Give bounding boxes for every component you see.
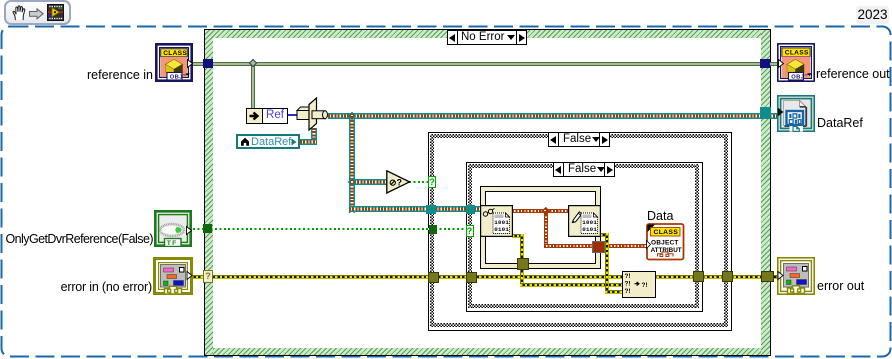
wire: DVR top NewDVR -> DataRef indicator (328, 113, 777, 119)
node: Merge Errors (622, 271, 656, 298)
terminal: error in (cluster control) (153, 257, 193, 295)
terminal: reference in (class control) (155, 43, 193, 82)
svg-text:?!: ?! (625, 288, 631, 295)
wire: class wire branch down to Ref node (251, 64, 255, 108)
terminal: DataRef out (DVR indicator) (777, 95, 815, 132)
svg-text:⊘?: ⊘? (389, 177, 402, 187)
terminal: reference out (class indicator) (777, 43, 815, 82)
node: Not A Number/Path/Refnum? triangle (386, 170, 411, 194)
tunnel: boolean (dark green) on green border (203, 224, 212, 233)
wire: object wire drop from diamond (544, 211, 548, 246)
toolbar arrow icon (29, 8, 44, 20)
wire: error from write node down (600, 233, 609, 237)
svg-text:CLASS: CLASS (785, 50, 809, 57)
toolbar hand icon (11, 5, 28, 22)
svg-text:?!: ?! (625, 273, 631, 280)
selector terminal: inner False case (?) (466, 225, 474, 237)
label: DataRef (817, 116, 863, 130)
in-place-element structure frame (480, 186, 601, 269)
junction: DVR diamond top (348, 111, 356, 119)
terminal: OnlyGetDvrReference(False) (bool control) (154, 210, 192, 247)
junction: DVR diamond mid (348, 178, 356, 186)
tunnel: error olive on inner False case right (693, 271, 704, 283)
selector terminal: green case (?) (203, 270, 213, 283)
wire: DVR vertical drop (349, 117, 355, 213)
toolbar tab (4, 0, 71, 25)
label: DataRef wire label (house) (236, 134, 300, 149)
svg-text:0101: 0101 (494, 226, 509, 233)
tunnel: error olive on outer False case right (722, 271, 733, 283)
tunnel: DVR on outer False case (426, 205, 436, 214)
tunnel: error olive on green case right (761, 271, 774, 283)
node: New Data Value Reference (funnel) (296, 97, 330, 132)
svg-text:OBJ: OBJ (169, 74, 182, 80)
selector terminal: outer False case (?) (428, 176, 436, 188)
svg-text:OBJECT: OBJECT (651, 239, 679, 246)
svg-text:OBJ: OBJ (791, 74, 804, 80)
node: Ref string constant (246, 108, 288, 124)
selector label: False (outer) (548, 132, 610, 147)
svg-text:TF: TF (167, 240, 178, 247)
case structure: False (outer, checkered) (428, 132, 732, 331)
svg-text:CLASS: CLASS (163, 50, 187, 57)
tunnel: error olive on inner False case left (466, 272, 477, 284)
tunnel: reference out (navy) (760, 59, 770, 69)
label: error in (no error) (61, 280, 152, 294)
label: error out (817, 279, 864, 293)
tunnel: DVR out (teal) (760, 107, 771, 119)
case structure: No Error (green hatched) (204, 29, 772, 356)
tunnel: error olive on outer False case left (428, 272, 439, 284)
svg-text:1001: 1001 (582, 219, 597, 226)
svg-text:0101: 0101 (582, 226, 597, 233)
wire: object wire to right tunnel and Data constant (544, 244, 648, 248)
2023 version label (856, 6, 889, 24)
constant: Data class constant (647, 209, 673, 223)
tunnel: DVR on inner False case (466, 205, 475, 214)
case structure: False (inner, checkered) (466, 162, 703, 312)
wire: DVR stub funnel bottom to DataRef label (311, 128, 317, 144)
wire: object wire inside IPE read -> write (512, 209, 571, 213)
wire: DVR horizontal into IPE read node (349, 206, 482, 212)
svg-text:?!: ?! (642, 282, 648, 289)
label: reference out (816, 67, 890, 81)
junction: class wire diamond (249, 59, 257, 67)
tunnel: object maroon on IPE right (592, 241, 605, 253)
tunnel: error olive on IPE bottom (517, 258, 529, 270)
selector label: No Error (447, 30, 527, 45)
selector label: False (inner) (553, 162, 615, 177)
svg-text:CLASS: CLASS (654, 229, 679, 236)
tunnel: reference in (navy) (203, 59, 213, 69)
node: DVR read element (left border of IPE) (480, 205, 513, 237)
node: DVR write element (right border of IPE) (568, 205, 601, 237)
tunnel: boolean dark green on outer False case (429, 225, 437, 234)
label: OnlyGetDvrReference(False) (5, 232, 153, 246)
terminal: error out (cluster indicator) (777, 257, 815, 295)
wire: class wire reference in -> reference out (top horizontal) (192, 62, 777, 66)
wire: error from read node down (512, 234, 523, 238)
label: reference in (87, 68, 153, 82)
wire: boolean dotted NotARefnum -> outer case selector (409, 181, 430, 183)
toolbar VI icon (47, 4, 64, 21)
wire: DVR branch to NotARefnum triangle (354, 179, 387, 185)
wire: blue refnum name wire Ref -> NewDVR (286, 114, 298, 116)
svg-text:1001: 1001 (494, 219, 509, 226)
svg-text:?!: ?! (625, 281, 631, 288)
junction: object wire diamond (542, 207, 550, 215)
wire: error main error-in -> merge errors -> error out (191, 275, 779, 279)
wire: boolean dotted OnlyGetDvrReference -> inner case selector (193, 228, 468, 230)
